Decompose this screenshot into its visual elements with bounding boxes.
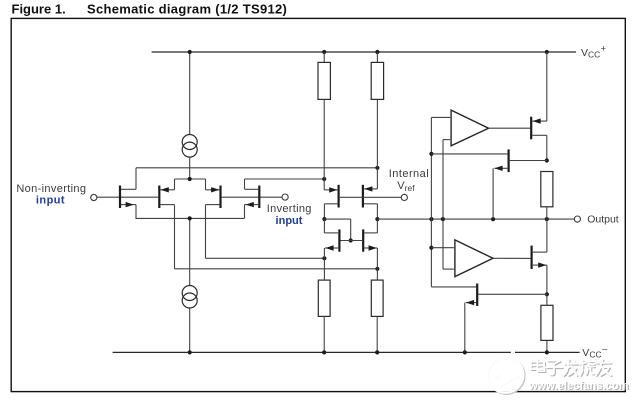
svg-text:input: input [276,215,303,227]
svg-text:Internal: Internal [389,168,429,180]
svg-text:Schematic diagram (1/2 TS912): Schematic diagram (1/2 TS912) [87,2,287,17]
svg-text:Vref: Vref [397,180,415,193]
svg-text:www.elecfans.com: www.elecfans.com [528,380,629,392]
svg-text:Inverting: Inverting [267,203,312,215]
svg-text:input: input [36,195,65,207]
svg-text:Output: Output [587,214,619,226]
svg-text:Non-inverting: Non-inverting [16,183,86,195]
svg-text:Figure 1.: Figure 1. [12,2,66,17]
